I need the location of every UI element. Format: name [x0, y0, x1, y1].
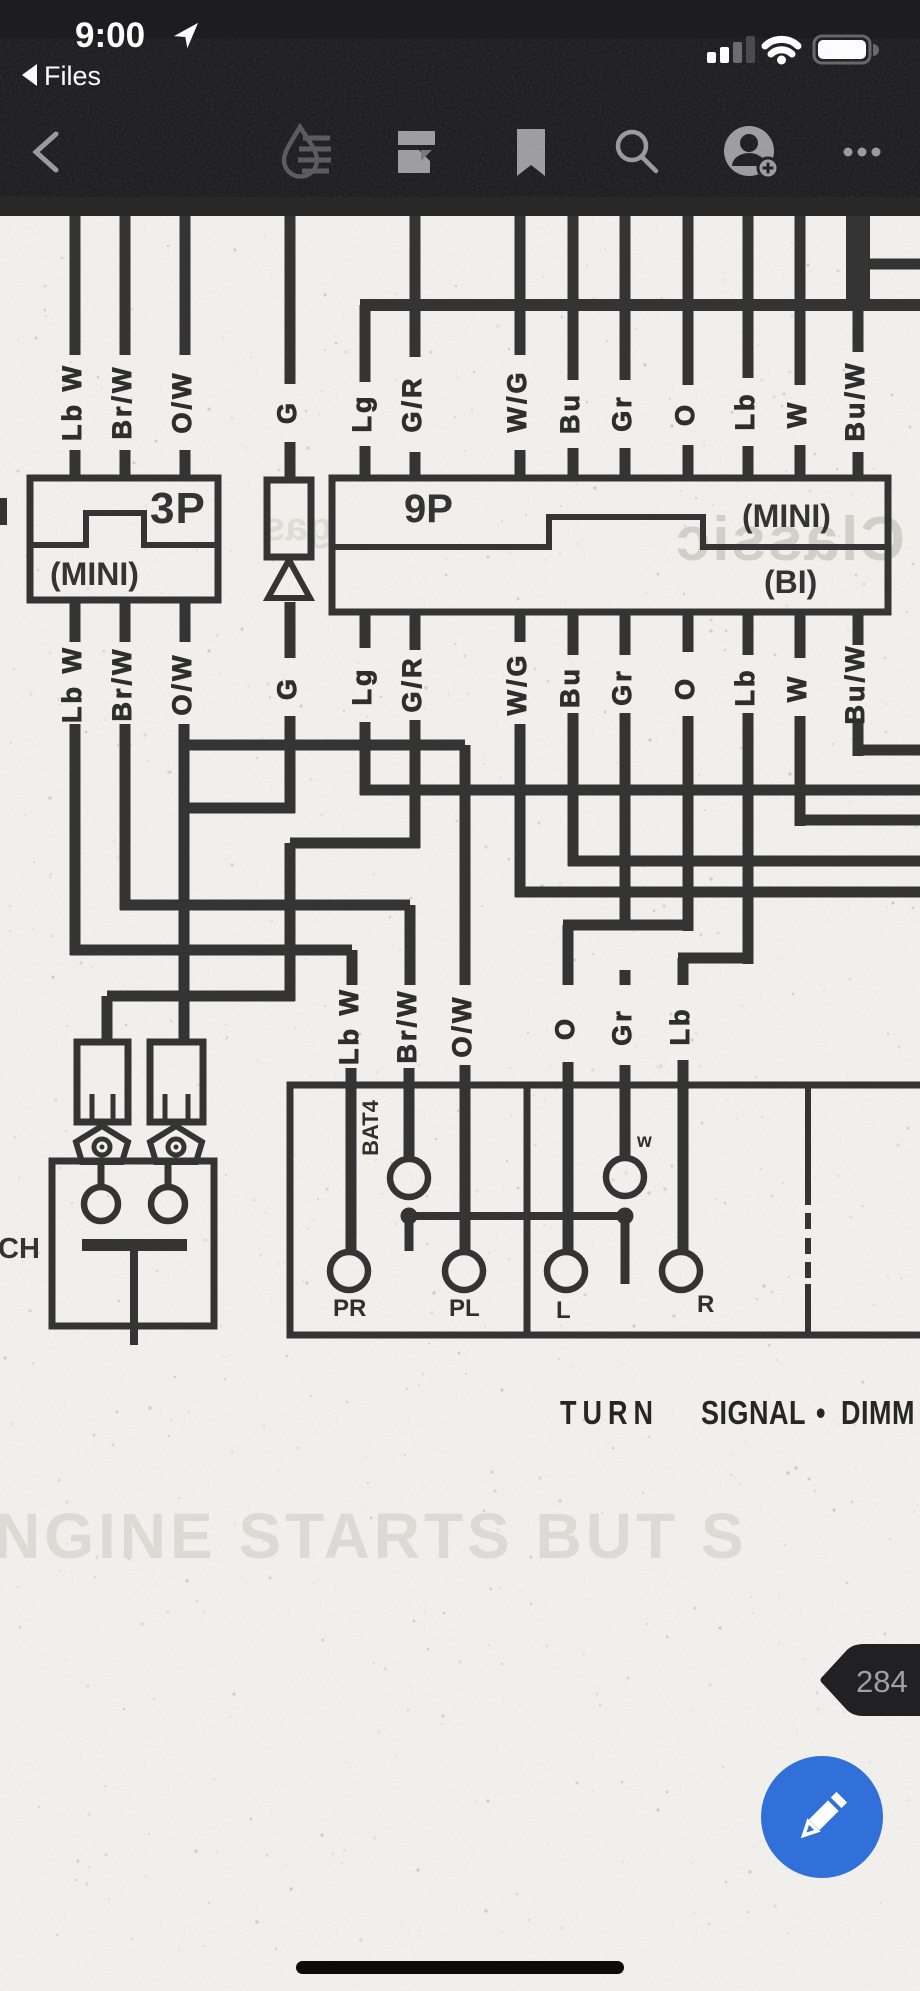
svg-text:W/G: W/G	[502, 370, 532, 433]
toolbar: more (ellipsis)	[844, 148, 853, 157]
svg-text:Br/W: Br/W	[107, 365, 137, 440]
connector 9P (MINI)(BI)	[332, 478, 888, 612]
cut-off character at left page edge	[0, 498, 7, 525]
toolbar: back chevron	[36, 134, 56, 170]
row 1 wire labels (rotated)	[57, 361, 870, 442]
bullet connector on wire G	[267, 480, 311, 598]
toolbar: search icon	[618, 132, 646, 160]
link bar between junctions	[409, 1212, 625, 1220]
wire G/R below 9P, jog left at y843	[290, 612, 420, 848]
contact circle W	[606, 1158, 644, 1196]
svg-text:R: R	[697, 1291, 714, 1318]
bus tooth Lb	[743, 216, 754, 300]
svg-text:TURN: TURN	[560, 1394, 659, 1432]
wire Lb below 9P, jog left at y958	[678, 612, 748, 964]
stub below left junction	[405, 1216, 414, 1251]
wire Bu/W bus to 9P	[853, 305, 864, 481]
scan top black band	[0, 197, 920, 216]
svg-text:Lb W: Lb W	[57, 363, 87, 441]
svg-text:(BI): (BI)	[764, 564, 817, 600]
internal divider solid	[524, 1085, 531, 1335]
svg-text:DIMM: DIMM	[841, 1394, 915, 1432]
svg-text:•: •	[816, 1394, 825, 1432]
svg-text:gas: gas	[263, 505, 332, 549]
turn signal / dimmer switch box	[290, 1085, 920, 1335]
svg-text:Bu: Bu	[555, 666, 585, 708]
bus tooth Bu	[568, 216, 579, 300]
toolbar: page-view icon	[398, 131, 435, 173]
svg-text:PL: PL	[449, 1295, 480, 1322]
wire Gr bus to 9P	[620, 305, 631, 481]
junction dot left	[401, 1208, 418, 1225]
wire W below 9P, jog right at y820	[795, 612, 920, 826]
svg-text:Bu: Bu	[555, 392, 585, 434]
terminal symbol under plug B	[150, 1126, 202, 1162]
contact circle PR	[330, 1252, 368, 1290]
wire W/G below 9P, jog right at y892	[515, 612, 920, 897]
home indicator	[296, 1961, 624, 1974]
wire Bu bus to 9P	[568, 305, 579, 481]
terminal symbol under plug A	[76, 1126, 128, 1162]
svg-text:w: w	[636, 1131, 652, 1152]
svg-text:Lb: Lb	[665, 1007, 695, 1046]
svg-text:Gr: Gr	[607, 668, 637, 706]
bus tooth O	[683, 216, 694, 300]
contact circle L	[547, 1252, 585, 1290]
CH switch box	[52, 1161, 214, 1345]
wire G/R bus to 9P	[410, 305, 421, 481]
wire Lb/W from top band to 3P	[70, 216, 81, 481]
lower-left connector plug A	[77, 1042, 128, 1122]
bus tooth Bu/W wide	[846, 216, 870, 300]
svg-text:Lg: Lg	[347, 394, 377, 433]
wire Lb/W below 3P, jog right at y950	[70, 600, 352, 955]
svg-text:Br/W: Br/W	[107, 647, 137, 722]
caption TURN SIGNAL - DIMMER	[560, 1394, 915, 1432]
page number pill 284	[806, 1640, 920, 1720]
wire Br/W below 3P, jog right at y905	[120, 600, 410, 910]
svg-text:G/R: G/R	[397, 655, 427, 712]
svg-text:BAT4: BAT4	[358, 1099, 383, 1156]
svg-text:Bu/W: Bu/W	[840, 644, 870, 725]
wire O below 9P down to crossing row y925	[683, 612, 694, 931]
wire G below arrow, jog left at y808	[185, 602, 295, 813]
svg-text:Lg: Lg	[347, 667, 377, 706]
wire O/W from top band to 3P	[180, 216, 191, 481]
stub below right junction	[621, 1216, 630, 1284]
contact circle PL	[445, 1252, 483, 1290]
row 2 wire labels (rotated)	[57, 644, 870, 725]
bus tooth W	[795, 216, 806, 300]
svg-text:G: G	[272, 676, 302, 700]
svg-text:L: L	[556, 1297, 571, 1324]
svg-text:284: 284	[856, 1664, 908, 1699]
arrow symbol below bullet	[268, 560, 310, 598]
cellular signal bars	[707, 52, 716, 63]
svg-text:W/G: W/G	[502, 653, 532, 716]
svg-text:Lb: Lb	[730, 392, 760, 431]
svg-text:Bu/W: Bu/W	[840, 361, 870, 442]
toolbar: ink/drop icon	[284, 127, 331, 177]
edit FAB with pencil	[760, 1755, 884, 1879]
back label: Files	[22, 64, 37, 86]
svg-text:Lb: Lb	[730, 668, 760, 707]
branch to right page edge	[852, 259, 920, 270]
branch x683 down to R	[678, 958, 689, 1252]
svg-text:9P: 9P	[404, 487, 453, 531]
svg-text:Lb W: Lb W	[334, 987, 364, 1065]
wire W bus to 9P	[795, 305, 806, 481]
svg-text:CH: CH	[0, 1233, 40, 1265]
svg-text:Br/W: Br/W	[392, 989, 422, 1064]
svg-text:O/W: O/W	[447, 995, 477, 1058]
wire O bus to 9P	[683, 305, 694, 481]
svg-text:O/W: O/W	[167, 653, 197, 716]
bus tooth Gr	[620, 216, 631, 300]
internal divider part-dashed	[805, 1085, 811, 1335]
crossing row y925 with drop to L	[563, 925, 688, 1252]
svg-text:O/W: O/W	[167, 371, 197, 434]
svg-text:NGINE STARTS BUT S: NGINE STARTS BUT S	[0, 1500, 748, 1572]
wire Lg bus to 9P	[360, 305, 371, 481]
wire O/W below 3P, long drop to lower connector	[184, 600, 185, 1045]
harness bus horizontal	[360, 299, 920, 311]
svg-text:W: W	[782, 400, 812, 428]
contact circle R	[662, 1252, 700, 1290]
wire Br/W from top band to 3P	[120, 216, 131, 481]
wire Lg below 9P into crossing row y790	[360, 612, 920, 795]
svg-text:G: G	[272, 400, 302, 424]
battery icon	[814, 36, 870, 63]
svg-text:PR: PR	[333, 1295, 366, 1322]
wire Lb bus to 9P	[743, 305, 754, 481]
junction dot right	[617, 1208, 634, 1225]
node branch x290 down from y843	[107, 843, 295, 1001]
branch x352 down to PR with label Lb W	[351, 950, 352, 1252]
wire G from top band to bullet connector	[285, 216, 296, 482]
bus tooth W/G	[515, 216, 526, 300]
toolbar: bookmark icon	[517, 129, 545, 176]
location arrow	[174, 17, 205, 48]
toolbar: add-person icon	[724, 126, 778, 178]
lower-left connector plug B	[150, 1042, 203, 1122]
connector 3P (MINI)	[30, 478, 218, 600]
svg-text:G/R: G/R	[397, 375, 427, 432]
lower wire labels (rotated)	[334, 987, 695, 1065]
svg-text:Gr: Gr	[607, 394, 637, 432]
svg-text:3P: 3P	[150, 484, 206, 533]
branch x410 down to BAT circle with label Br/W	[409, 905, 410, 1159]
branch x107 into lower connector A	[102, 996, 113, 1045]
svg-text:O: O	[670, 676, 700, 700]
wire Gr below 9P down to switch box	[620, 612, 631, 1159]
svg-text:O: O	[550, 1016, 580, 1040]
wifi icon	[765, 39, 798, 64]
svg-text:(MINI): (MINI)	[742, 498, 831, 534]
svg-text:SIGNAL: SIGNAL	[701, 1394, 806, 1432]
svg-text:(MINI): (MINI)	[50, 556, 139, 592]
contact circle on Br/W	[390, 1159, 428, 1197]
svg-text:Lb W: Lb W	[57, 645, 87, 723]
branch x465 from row y745 with label O/W	[185, 745, 465, 1252]
wire Bu/W below 9P, jog right at y750	[853, 612, 920, 756]
wire Bu below 9P, jog right at y861	[568, 612, 920, 866]
svg-text:O: O	[670, 402, 700, 426]
bus tooth G/R	[410, 216, 421, 300]
svg-text:Gr: Gr	[607, 1008, 637, 1046]
wire W/G bus to 9P	[515, 305, 526, 481]
svg-text:W: W	[782, 674, 812, 702]
